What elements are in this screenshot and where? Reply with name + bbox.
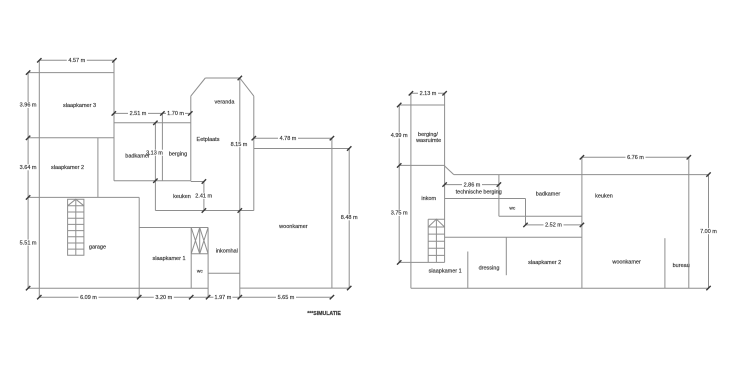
stairs garage treads [68,206,84,249]
svg-text:2.86 m: 2.86 m [464,182,481,188]
wall slaapkamer2 right [97,138,99,198]
svg-text:4.99 m: 4.99 m [391,133,408,139]
svg-text:4.78 m: 4.78 m [280,136,297,142]
dimension 4.78 m label [278,135,298,141]
wall keuken left with 3.13 dim line [154,123,156,211]
dimension 8.48 m line [348,149,350,289]
svg-text:7.00 m: 7.00 m [700,229,717,235]
dimension 7.00 m label [699,228,718,234]
dimension 1.70 m label [166,110,185,116]
wall right diagonal [445,166,454,175]
dimension 2.86 m label [462,182,482,188]
svg-text:Eetplaats: Eetplaats [197,137,220,143]
svg-text:wc: wc [509,207,515,212]
wall badkamer berging top [114,122,191,124]
stairs garage arrow triangle [68,199,84,206]
dimension right left column ticks [397,103,401,265]
wall right top extension to 7.00 dim [689,174,709,176]
stairs garage center line [75,199,77,255]
wall berging right / veranda left [190,96,192,181]
wall right building bottom [411,287,709,289]
svg-text:inkom: inkom [421,196,436,202]
wall right dressing slaapkamer2 divider [505,237,507,275]
dimension 3.75 m label [389,210,409,216]
svg-text:5.51 m: 5.51 m [20,240,37,246]
wall keuken top stub [191,181,204,183]
svg-text:8.15 m: 8.15 m [231,142,248,148]
dimension left column line [27,73,29,289]
stairs garage box [68,199,84,255]
stairs right box [428,219,444,262]
dimension 4.99 m label [389,132,409,138]
dimension 4.78 m ticks [252,136,335,140]
svg-text:badkamer: badkamer [536,191,561,197]
wall right middle [445,236,582,238]
wall right berging bottom [399,164,444,166]
wall woonkamer bottom [240,287,349,289]
dimension 6.09 m label [79,294,99,300]
wall right slaapkamer1 dressing divider [467,252,469,289]
wall woonkamer top [254,148,349,150]
svg-text:berging/: berging/ [418,132,438,138]
dimension 6.76 m ticks [580,155,691,159]
wall inkomhal right with 8.15 dim line [239,78,241,297]
door X diagonals [191,228,208,254]
wall building bottom left part [28,287,208,289]
wall right technische berging bottom wc top [445,198,526,200]
wall garage right [138,197,140,297]
svg-text:***SIMULATIE: ***SIMULATIE [307,311,341,317]
svg-text:bureau: bureau [673,263,690,269]
svg-text:wasruimte: wasruimte [415,138,441,144]
dimension 2.41 m ticks [202,179,206,212]
dimension bottom ticks [37,295,334,299]
wall veranda eetplaats right [253,96,255,210]
svg-text:3.75 m: 3.75 m [391,211,408,217]
dimension 5.65 m label [276,294,296,300]
wall right building right edge [688,157,690,288]
door X middle [199,228,201,254]
wall badkamer berging divider [161,113,163,180]
dimension 6.76 m line [582,156,689,158]
wall keuken bottom [155,210,253,212]
svg-text:inkomhal: inkomhal [216,248,238,254]
wall right berging right inkom right [444,93,446,262]
svg-text:slaapkamer 3: slaapkamer 3 [63,103,96,109]
dimension 2.51 and 1.70 ticks [112,111,193,115]
wall building left edge [38,60,40,297]
svg-text:slaapkamer 2: slaapkamer 2 [528,260,561,266]
wall slaapkamer1 top [139,227,208,229]
dimension 8.48 m label [340,214,359,220]
wall slaapkamer3 right / badkamer left [113,60,115,180]
wall slaapkamer2 bottom / garage top [28,196,139,198]
svg-text:8.48 m: 8.48 m [341,215,358,221]
svg-text:1.97 m: 1.97 m [214,295,231,301]
svg-text:6.76 m: 6.76 m [627,155,644,161]
wall inkomhal bottom [208,272,240,274]
wall right wc right [525,199,527,225]
wall wc right [207,228,209,298]
wall slaapkamer1 right [190,228,192,289]
dimension 2.52 m label [544,222,564,228]
dimension 8.48 m ticks [347,146,351,290]
dimension 3.20 m label [154,294,174,300]
wall slaapkamer3 top [28,72,114,74]
wall right bureau divider [664,238,666,288]
wall right berging left building left [410,93,412,288]
dimension 2.51 m label [128,110,148,116]
dimension 2.13 m line [411,92,445,94]
dimension 2.86 m line [445,184,499,186]
svg-text:dressing: dressing [479,265,500,271]
dimension 7.00 m line [708,175,710,289]
svg-text:woonkamer: woonkamer [611,260,641,266]
dimension 4.57 m ticks [37,58,117,62]
wall badkamer berging bottom [114,180,191,182]
dimension 2.41 m line [203,182,205,211]
dimension 2.51 and 1.70 line [114,112,191,114]
svg-text:slaapkamer 1: slaapkamer 1 [429,269,462,275]
svg-text:badkamer: badkamer [125,154,150,160]
wall woonkamer right [331,138,333,288]
svg-text:3.64 m: 3.64 m [20,165,37,171]
dimension 2.13 m label [418,90,438,96]
svg-text:slaapkamer 2: slaapkamer 2 [51,165,84,171]
wall veranda top [205,77,240,79]
wall right berging top [399,104,444,106]
svg-text:keuken: keuken [595,194,613,200]
dimension 2.52 m ticks [523,223,584,227]
wall right keuken divider [581,157,583,288]
wall veranda diagonal left [191,78,206,96]
svg-text:2.13 m: 2.13 m [420,91,437,97]
svg-text:5.65 m: 5.65 m [278,295,295,301]
dimension 8.15 m label [230,141,249,147]
wall slaapkamer3 bottom [28,137,114,139]
svg-text:2.51 m: 2.51 m [130,111,147,117]
dimension right left column line [398,105,400,262]
svg-text:technische berging: technische berging [456,189,502,195]
svg-text:1.70 m: 1.70 m [167,111,184,117]
dimension bottom line [39,296,332,298]
svg-text:veranda: veranda [215,100,236,106]
dimension 3.13 m label [145,150,164,156]
dimension 2.52 m line [526,224,582,226]
svg-text:3.20 m: 3.20 m [155,295,172,301]
dimension 2.41 m label [194,193,213,199]
stairs right arrow triangle [428,219,444,227]
door X bottom [191,253,208,255]
wall right badkamer bottom [499,215,582,217]
dimension 2.86 m ticks [442,182,501,186]
svg-text:woonkamer: woonkamer [278,224,308,230]
dimension 1.97 m label [213,294,232,300]
svg-text:slaapkamer 1: slaapkamer 1 [152,256,185,262]
svg-text:4.57 m: 4.57 m [68,58,85,64]
svg-text:3.96 m: 3.96 m [20,103,37,109]
svg-text:wc: wc [197,269,203,274]
wall right top [454,174,689,176]
dimension 2.13 m ticks [409,91,447,95]
dimension 7.00 m ticks [706,172,710,290]
svg-text:6.09 m: 6.09 m [80,295,97,301]
svg-text:berging: berging [169,152,187,158]
svg-text:keuken: keuken [173,194,191,200]
dimension left column ticks [26,70,30,290]
svg-text:garage: garage [89,245,106,251]
dimension 8.15 m ticks [238,76,242,213]
dimension 5.51 m label [18,240,38,246]
dimension 3.64 m label [18,164,38,170]
dimension 4.57 m line [39,59,114,61]
dimension 6.76 m label [626,154,646,160]
wall right technische berging badkamer divider [498,175,500,217]
dimension 4.57 m label [67,57,87,63]
stairs right center line [435,219,437,262]
dimension 3.13 m ticks [153,121,157,183]
stairs right treads [428,227,444,255]
svg-text:2.52 m: 2.52 m [545,223,562,229]
svg-text:2.41 m: 2.41 m [195,194,212,200]
wall veranda diagonal right [240,78,254,96]
dimension 4.78 m line [254,137,332,139]
wall right inkom bottom [399,261,444,263]
dimension 3.96 m label [18,102,38,108]
